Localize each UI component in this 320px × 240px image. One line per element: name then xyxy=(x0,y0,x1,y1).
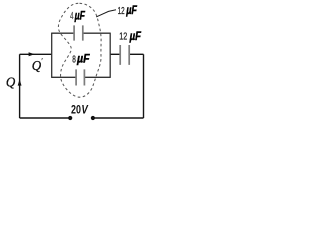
capacitor C1 4uF plates xyxy=(74,25,83,40)
svg-text:µF: µF xyxy=(125,5,137,17)
node: battery terminal dot left xyxy=(68,116,72,120)
wire: bottom left segment to battery terminal xyxy=(20,117,71,119)
svg-text:12: 12 xyxy=(119,31,127,43)
box: parallel combination rectangle xyxy=(52,32,110,34)
arrow on Q' wire xyxy=(29,52,35,56)
svg-text:20: 20 xyxy=(71,103,81,117)
svg-text:Q: Q xyxy=(6,76,15,91)
wire: top right horizontal to capacitor C3 xyxy=(130,53,144,55)
svg-text:µF: µF xyxy=(74,10,86,22)
wire: left vertical (Q branch) xyxy=(19,54,21,118)
svg-text:Q: Q xyxy=(32,59,41,74)
capacitor C3 12uF plates xyxy=(120,45,129,65)
svg-text:8: 8 xyxy=(72,53,76,65)
wire: box to capacitor C3 xyxy=(110,53,120,55)
svg-text:µF: µF xyxy=(76,54,90,66)
wire: bottom right segment xyxy=(93,117,144,119)
node: battery terminal dot right xyxy=(91,116,95,120)
svg-text:µF: µF xyxy=(129,31,142,43)
wire: right vertical xyxy=(143,54,145,118)
dashed equivalence balloon around C1 and C2 xyxy=(58,3,101,97)
capacitor C2 8uF plates xyxy=(76,69,84,85)
arrow on Q wire (up) xyxy=(18,79,22,86)
wire: Q' horizontal with current arrow xyxy=(20,53,52,55)
svg-text:4: 4 xyxy=(70,11,74,22)
svg-text:V: V xyxy=(81,103,88,117)
leader line to 12uF equivalent label xyxy=(96,10,116,17)
svg-text:12: 12 xyxy=(118,5,125,17)
